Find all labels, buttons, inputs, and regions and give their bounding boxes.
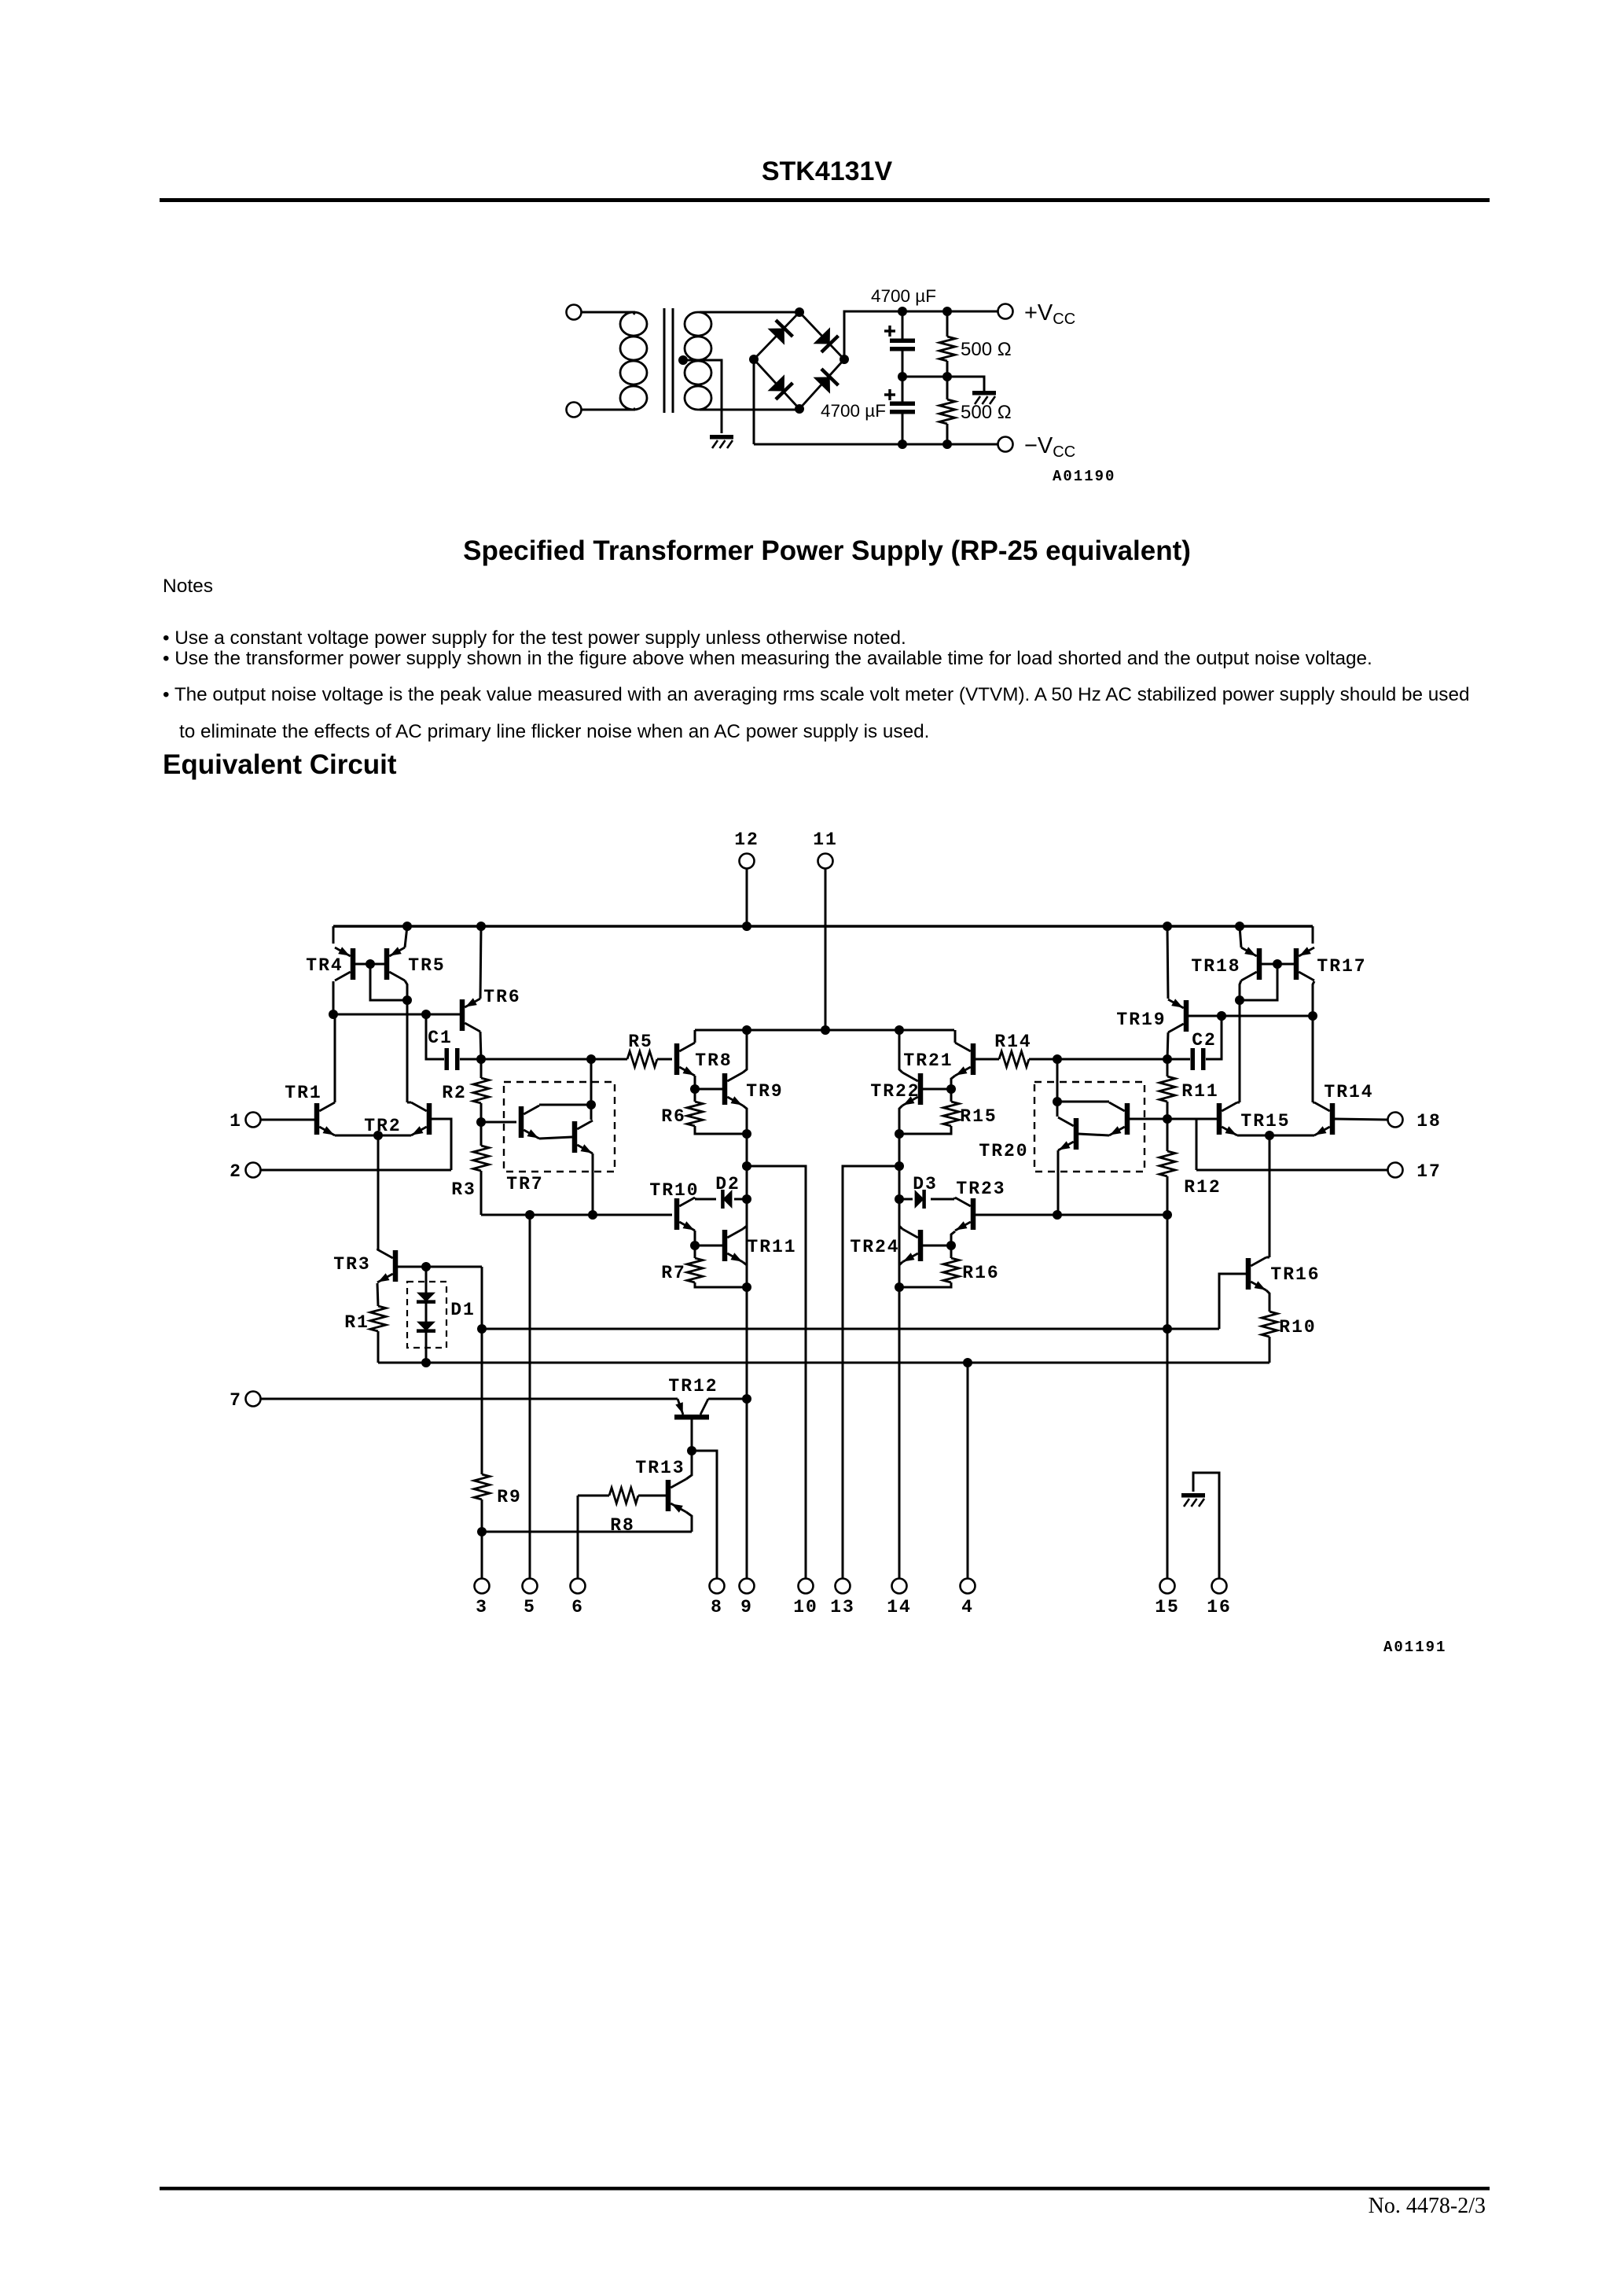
junction TR16 riser	[1265, 1131, 1274, 1140]
text Notes	[163, 576, 213, 597]
label pin 7	[230, 1390, 242, 1411]
wire TR24 base link	[923, 1245, 951, 1247]
svg-text:TR23: TR23	[956, 1179, 1005, 1199]
transistor TR6	[460, 998, 480, 1032]
pin 7 terminal	[246, 1392, 261, 1407]
footer page number	[1369, 2194, 1486, 2218]
junction R15 TR22 emitter	[895, 1129, 904, 1139]
svg-text:TR5: TR5	[408, 955, 445, 976]
wire pin7 line	[261, 1398, 678, 1400]
capacitor 4700uF upper	[884, 311, 915, 377]
transistor TR20 second	[1058, 1117, 1078, 1150]
label TR3	[333, 1254, 370, 1275]
wire inner rail	[695, 1029, 954, 1032]
junction TR20 emitter	[1053, 1210, 1062, 1220]
svg-text:TR8: TR8	[695, 1050, 732, 1071]
node -rail cap	[898, 440, 907, 449]
junction D2 anode	[742, 1194, 751, 1204]
svg-text:A01190: A01190	[1053, 468, 1115, 485]
label TR14	[1324, 1082, 1373, 1102]
junction pin11 inner rail	[821, 1025, 830, 1035]
wire D2 anode link	[734, 1198, 747, 1201]
svg-text:R7: R7	[661, 1263, 686, 1283]
transistor TR14	[1314, 1102, 1335, 1135]
wire TR7 collectors riser	[590, 1059, 593, 1120]
junction base tie	[366, 959, 375, 969]
diode D1 first	[417, 1293, 435, 1302]
svg-text:TR19: TR19	[1116, 1010, 1166, 1030]
wire center tap to ground	[683, 360, 722, 433]
wire pin15 column	[1167, 1215, 1169, 1578]
junction inner rail TR22	[895, 1025, 904, 1035]
transistor TR3	[377, 1249, 398, 1282]
label TR17	[1317, 956, 1366, 977]
pin 8 terminal	[710, 1579, 725, 1594]
junction TR24 base	[946, 1241, 956, 1250]
wire TR21 emitter	[951, 1076, 955, 1089]
label TR20	[979, 1141, 1028, 1161]
label R2	[442, 1083, 467, 1103]
svg-text:R11: R11	[1181, 1081, 1218, 1102]
resistor R3	[473, 1122, 489, 1215]
wire TR8 collector	[694, 1030, 696, 1043]
wire TR3 emitter to R1	[377, 1283, 378, 1306]
pin 15 terminal	[1160, 1579, 1175, 1594]
pin 6 terminal	[571, 1579, 586, 1594]
svg-text:TR15: TR15	[1240, 1111, 1290, 1131]
transistor TR7 first	[519, 1106, 539, 1139]
pin 18 terminal	[1388, 1113, 1403, 1128]
junction R12 bottom	[1163, 1210, 1172, 1220]
svg-text:TR10: TR10	[649, 1180, 699, 1201]
wire TR3 base to line 1690	[481, 1267, 483, 1329]
wire TR16 emitter	[1266, 1290, 1269, 1312]
transistor TR11	[722, 1229, 743, 1262]
wire TR6 emitter to rail	[480, 926, 481, 999]
svg-text:R2: R2	[442, 1083, 467, 1103]
label C2	[1192, 1030, 1217, 1050]
svg-text:TR20: TR20	[979, 1141, 1028, 1161]
label R15	[960, 1106, 997, 1127]
wire TR12 collector link	[708, 1398, 747, 1400]
svg-text:• Use the transformer power s: • Use the transformer power supply shown…	[163, 648, 1372, 669]
transistor TR21	[955, 1043, 976, 1076]
transistor TR15	[1217, 1102, 1237, 1135]
wire TR15 base	[1167, 1118, 1217, 1120]
label A01191	[1383, 1639, 1446, 1656]
wire -Vcc rail	[754, 443, 998, 446]
wire TR1 collector column	[334, 1014, 336, 1102]
wire pin14 column upper	[898, 1134, 901, 1287]
node bridge top	[795, 307, 804, 317]
resistor R2	[473, 1059, 489, 1122]
diode bridge top-right	[814, 327, 839, 352]
note bullet 2	[163, 648, 1372, 669]
node bridge bottom	[795, 404, 804, 414]
transistor TR16	[1246, 1257, 1266, 1290]
svg-text:9: 9	[740, 1597, 753, 1617]
junction rail TR19	[1163, 922, 1172, 931]
caption Specified Transformer Power Supply	[463, 535, 1191, 566]
wire mid rail	[902, 377, 984, 392]
label pin 9	[740, 1597, 753, 1617]
capacitor C1	[426, 1014, 481, 1070]
svg-text:A01191: A01191	[1383, 1639, 1446, 1656]
svg-text:C1: C1	[428, 1028, 453, 1048]
svg-text:TR12: TR12	[668, 1376, 718, 1396]
svg-text:2: 2	[230, 1161, 242, 1182]
wire pin17 line	[1196, 1169, 1387, 1172]
wire TR22 emitter	[899, 1106, 902, 1134]
label R14	[994, 1032, 1031, 1052]
wire TR19 base line	[1189, 1015, 1313, 1017]
svg-text:500 Ω: 500 Ω	[961, 402, 1012, 423]
transistor TR9	[722, 1073, 743, 1106]
pin 14 terminal	[892, 1579, 907, 1594]
svg-text:16: 16	[1207, 1597, 1232, 1617]
label pin 11	[813, 830, 838, 850]
svg-text:17: 17	[1416, 1161, 1442, 1182]
wire secondary top to bridge	[700, 311, 799, 314]
wire TR18 collector column	[1240, 981, 1241, 1102]
transistor TR18	[1241, 947, 1262, 981]
transistor TR24	[902, 1229, 923, 1262]
wire TR16 base link	[1219, 1274, 1246, 1329]
resistor R6	[687, 1089, 745, 1134]
transistor TR13	[666, 1479, 686, 1513]
transistor TR19	[1168, 999, 1189, 1032]
svg-text:R1: R1	[344, 1312, 369, 1333]
wire TR16 collector riser	[1269, 1135, 1271, 1257]
diode bridge bottom-left	[768, 374, 793, 399]
wire TR6 collector	[480, 1032, 481, 1059]
wire pin16 column	[1193, 1473, 1219, 1578]
wire TR4 collector	[333, 981, 335, 1014]
wire TR13 emitter	[686, 1512, 692, 1532]
resistor R16	[901, 1246, 959, 1287]
wire TR10 emitter	[694, 1231, 696, 1246]
transistor TR17	[1294, 947, 1314, 981]
svg-text:TR22: TR22	[870, 1081, 920, 1102]
terminal -Vcc	[998, 437, 1013, 452]
svg-text:TR21: TR21	[903, 1050, 953, 1071]
label pin 12	[734, 830, 759, 850]
svg-text:TR14: TR14	[1324, 1082, 1373, 1102]
svg-text:10: 10	[793, 1597, 818, 1617]
wire output emitter line	[1237, 1135, 1314, 1137]
label pin 8	[711, 1597, 723, 1617]
label pin 3	[476, 1597, 488, 1617]
wire TR20b emitter column	[1057, 1150, 1060, 1215]
wire TR8 emitter	[694, 1076, 696, 1089]
label R8	[610, 1515, 635, 1536]
ground mid rail	[972, 391, 996, 404]
wire pin10 link	[747, 1166, 806, 1578]
junction R11 R12 TR15	[1163, 1114, 1172, 1124]
svg-text:TR11: TR11	[747, 1237, 796, 1257]
label pin 17	[1416, 1161, 1442, 1182]
wire base tie to TR5 collector	[370, 964, 407, 1000]
label TR6	[483, 987, 520, 1007]
note bullet 3	[163, 684, 1469, 705]
wire TR14 base to pin18	[1335, 1119, 1387, 1120]
svg-text:No. 4478-2/3: No. 4478-2/3	[1369, 2194, 1486, 2218]
wire pin9 column lower	[746, 1287, 748, 1578]
svg-text:TR1: TR1	[285, 1083, 321, 1103]
node -rail res	[942, 440, 952, 449]
svg-text:Specified Transformer Power Su: Specified Transformer Power Supply (RP-2…	[463, 535, 1191, 566]
junction R11 top	[1163, 1054, 1172, 1064]
label R16	[962, 1263, 999, 1283]
diode D1 second	[417, 1322, 435, 1331]
label D3	[913, 1174, 938, 1194]
resistor R8	[578, 1488, 666, 1503]
wire TR23 collector	[954, 1198, 955, 1199]
wire rail end to TR4 emitter	[333, 926, 335, 944]
wire D1 column	[425, 1267, 428, 1363]
wire pin8 link	[692, 1451, 717, 1578]
junction TR20 collectors	[1053, 1097, 1062, 1106]
wire bias line 1690	[482, 1328, 1219, 1330]
wire TR9 emitter	[743, 1106, 747, 1134]
svg-text:STK4131V: STK4131V	[762, 156, 893, 186]
wire tail column	[377, 1135, 380, 1250]
junction rail TR18	[1235, 922, 1244, 931]
junction inner rail TR9	[742, 1025, 751, 1035]
wire primary bottom lead	[582, 409, 635, 411]
junction TR7 collectors	[586, 1100, 596, 1109]
label R3	[451, 1179, 476, 1200]
wire TR12 base column	[691, 1419, 693, 1451]
junction D1 top	[421, 1262, 431, 1271]
wire D3 cathode link	[931, 1198, 954, 1201]
heading Equivalent Circuit	[163, 749, 397, 780]
resistor R12	[1159, 1119, 1175, 1215]
label R1	[344, 1312, 369, 1333]
label 500ohm upper	[961, 339, 1012, 360]
wire TR21 base to R14	[976, 1058, 999, 1061]
label pin 10	[793, 1597, 818, 1617]
transistor TR10	[674, 1198, 695, 1231]
transistor TR7 second	[572, 1120, 593, 1154]
label TR18	[1191, 956, 1240, 977]
label TR24	[850, 1237, 899, 1257]
wire TR18 emitter to rail	[1240, 926, 1241, 947]
label 4700uF upper	[871, 286, 936, 306]
footer rule	[160, 2187, 1490, 2191]
svg-text:TR17: TR17	[1317, 956, 1366, 977]
svg-text:D3: D3	[913, 1174, 938, 1194]
junction rail TR5	[402, 922, 412, 931]
label R5	[628, 1032, 653, 1052]
svg-text:TR16: TR16	[1270, 1264, 1320, 1285]
wire C1 to R5	[481, 1058, 627, 1061]
label TR2	[364, 1116, 401, 1136]
svg-text:R9: R9	[497, 1487, 522, 1507]
junction pin5 column top	[525, 1210, 535, 1220]
svg-text:• The output noise voltage is: • The output noise voltage is the peak v…	[163, 684, 1469, 705]
wire secondary bottom to bridge	[700, 409, 799, 411]
label pin 18	[1416, 1111, 1442, 1131]
wire TR11 base link	[695, 1245, 722, 1247]
wire pin5 column	[529, 1215, 531, 1578]
label TR10	[649, 1180, 699, 1201]
label 500ohm lower	[961, 402, 1012, 423]
resistor R14	[999, 1051, 1056, 1067]
label TR23	[956, 1179, 1005, 1199]
wire pin13 link	[843, 1166, 899, 1578]
wire center line right	[1056, 1058, 1190, 1061]
resistor R5	[627, 1051, 672, 1067]
wire pin2 line	[261, 1169, 451, 1172]
svg-text:R14: R14	[994, 1032, 1031, 1052]
capacitor 4700uF lower	[884, 377, 915, 444]
label TR11	[747, 1237, 796, 1257]
svg-text:• Use a constant voltage powe: • Use a constant voltage power supply fo…	[163, 627, 906, 649]
svg-text:TR7: TR7	[506, 1174, 543, 1194]
junction C2 TR19 base	[1217, 1011, 1226, 1021]
junction D1 bottom	[421, 1358, 431, 1367]
junction pin7 TR12 pin9col	[742, 1394, 751, 1404]
resistor 500ohm upper	[939, 311, 955, 377]
wire emitter line 1733	[378, 1362, 1269, 1364]
wire D2 cathode link	[695, 1198, 716, 1201]
wire TR5 collector column	[405, 981, 407, 1102]
label pin 16	[1207, 1597, 1232, 1617]
wire TR7a emitter to TR7b base	[539, 1137, 572, 1139]
wire TR3 base line	[398, 1266, 482, 1268]
label TR22	[870, 1081, 920, 1102]
junction pin12 rail	[742, 922, 751, 931]
transformer primary terminal bottom	[567, 403, 582, 418]
junction TR7 riser	[586, 1054, 596, 1064]
label +Vcc	[1024, 300, 1075, 328]
wire TR23 emitter	[951, 1231, 955, 1246]
junction D3 anode	[895, 1194, 904, 1204]
svg-text:3: 3	[476, 1597, 488, 1617]
wire base tie to TR18 collector	[1240, 964, 1277, 1000]
resistor R9	[474, 1329, 490, 1578]
wire TR21 collector	[954, 1030, 957, 1043]
wire top rail	[333, 925, 1313, 928]
junction R9 pin3	[477, 1527, 487, 1536]
wire TR24 emitter	[899, 1262, 902, 1265]
label 4700uF lower	[821, 401, 886, 421]
wire TR9 base link	[695, 1088, 722, 1091]
label pin 2	[230, 1161, 242, 1182]
svg-text:8: 8	[711, 1597, 723, 1617]
wire TR7b emitter column	[592, 1154, 594, 1215]
junction common emitter	[373, 1131, 383, 1140]
junction line1733 pin4	[963, 1358, 972, 1367]
wire TR20a emitter to TR20b base	[1078, 1134, 1109, 1135]
junction R16 TR24 emitter	[895, 1282, 904, 1292]
label R11	[1181, 1081, 1218, 1102]
label -Vcc	[1024, 433, 1075, 461]
wire pin11 to inner rail	[825, 869, 827, 1030]
pin 16 terminal	[1212, 1579, 1227, 1594]
bridge rectifier frame	[754, 312, 844, 409]
label pin 4	[961, 1597, 974, 1617]
svg-text:11: 11	[813, 830, 838, 850]
svg-text:TR4: TR4	[306, 955, 343, 976]
resistor R15	[901, 1089, 959, 1134]
svg-text:12: 12	[734, 830, 759, 850]
transformer core	[664, 308, 673, 413]
pin 4 terminal	[961, 1579, 976, 1594]
svg-text:R3: R3	[451, 1179, 476, 1200]
svg-text:18: 18	[1416, 1111, 1442, 1131]
svg-text:Equivalent Circuit: Equivalent Circuit	[163, 749, 397, 780]
label pin 14	[887, 1597, 912, 1617]
junction TR20 riser	[1053, 1054, 1062, 1064]
label TR5	[408, 955, 445, 976]
svg-text:TR6: TR6	[483, 987, 520, 1007]
label pin 1	[230, 1111, 242, 1131]
junction TR12 base TR13	[687, 1446, 696, 1455]
wire common emitter line	[335, 1135, 411, 1137]
ground transformer center tap	[710, 435, 733, 448]
node +rail cap	[898, 307, 907, 316]
label TR1	[285, 1083, 321, 1103]
junction TR9 base	[690, 1084, 700, 1094]
wire bridge+ to +Vcc rail	[844, 311, 998, 359]
junction base tie right	[1273, 959, 1282, 969]
transistor TR12	[674, 1399, 709, 1420]
transistor TR23	[955, 1198, 976, 1231]
junction TR6 collector C1	[476, 1054, 486, 1064]
label R7	[661, 1263, 686, 1283]
title STK4131V	[762, 156, 893, 186]
wire TR10 collector	[694, 1198, 696, 1199]
header rule	[160, 198, 1490, 202]
svg-text:4: 4	[961, 1597, 974, 1617]
label TR21	[903, 1050, 953, 1071]
wire TR20a collector	[1057, 1101, 1109, 1103]
wire TR13 collector	[686, 1451, 692, 1479]
wire bridge- down	[753, 359, 755, 444]
label R12	[1184, 1177, 1221, 1198]
label TR4	[306, 955, 343, 976]
junction TR4 collector node	[329, 1010, 338, 1019]
transformer primary winding	[620, 312, 647, 410]
junction R6 TR9 emitter	[742, 1129, 751, 1139]
label pin 5	[524, 1597, 536, 1617]
wire rail corner to TR17	[1312, 926, 1314, 944]
svg-text:4700 µF: 4700 µF	[821, 401, 886, 421]
svg-text:D1: D1	[450, 1300, 476, 1320]
svg-text:TR13: TR13	[635, 1458, 685, 1478]
wire TR23 base line	[976, 1214, 1167, 1216]
label R9	[497, 1487, 522, 1507]
wire TR9 collector	[743, 1030, 747, 1073]
label TR13	[635, 1458, 685, 1478]
wire TR17-TR18 base tie	[1262, 963, 1294, 966]
label pin 6	[571, 1597, 584, 1617]
label TR12	[668, 1376, 718, 1396]
junction TR7 emitter	[588, 1210, 597, 1220]
resistor R7	[687, 1246, 745, 1287]
pin 9 terminal	[740, 1579, 755, 1594]
svg-text:C2: C2	[1192, 1030, 1217, 1050]
node +rail res	[942, 307, 952, 316]
transistor TR8	[674, 1043, 695, 1076]
wire TR22 base link	[923, 1088, 951, 1091]
transistor TR5	[384, 947, 405, 981]
pin 11 terminal	[818, 854, 833, 869]
wire pin4 column	[967, 1363, 969, 1578]
label pin 13	[830, 1597, 855, 1617]
